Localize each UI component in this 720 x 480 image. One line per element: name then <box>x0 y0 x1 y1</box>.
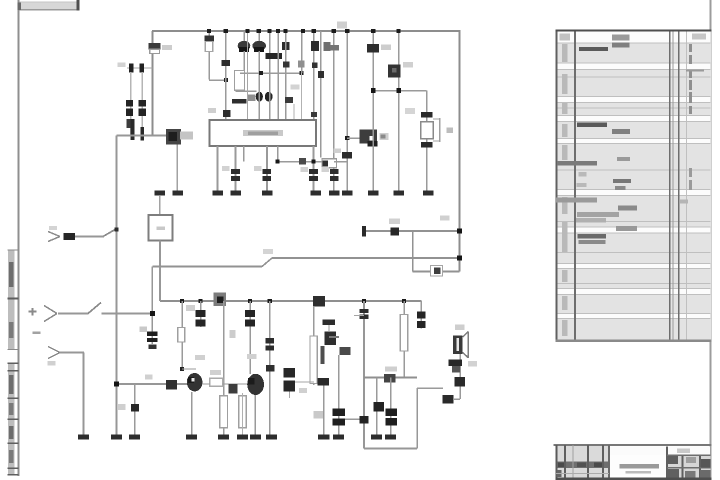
connector XS2 plus sign <box>29 311 37 313</box>
ground x242 <box>237 435 248 440</box>
wire right rail 90 <box>373 90 426 92</box>
capacitor C14 pair <box>263 169 272 174</box>
wire VD1 bottom <box>243 51 245 71</box>
capacitor C24 <box>131 404 139 412</box>
wire base link <box>347 137 360 139</box>
node x320 y382 <box>318 378 330 386</box>
transistor VT3 <box>360 130 378 144</box>
wire mid rail <box>240 72 302 74</box>
wire plus input <box>58 313 89 315</box>
wire drop x398 <box>398 31 400 191</box>
wire pin x301 lower <box>301 73 302 120</box>
wire C25 drop <box>289 391 290 398</box>
table rotated text right column lower <box>689 168 692 177</box>
label C23 <box>314 411 324 419</box>
resistor R12 body <box>239 396 247 428</box>
table left column position designator texts <box>562 44 568 62</box>
wire drop pin3 <box>258 92 260 120</box>
wire main left vertical <box>116 136 118 435</box>
variable resistor RP1 body <box>166 129 181 144</box>
ground x376 <box>371 435 382 440</box>
label feedback right <box>440 216 450 221</box>
wire fuse to switch <box>75 236 104 238</box>
capacitor C18 bars <box>245 310 255 317</box>
ground x373 <box>368 191 379 196</box>
wire IC pin f <box>313 146 315 191</box>
loudspeaker BA1 horn <box>463 332 469 337</box>
node y398 blob <box>443 395 454 404</box>
resistor R6 <box>431 266 443 277</box>
wire drop pin2 <box>247 31 248 120</box>
blob under-IC mid <box>299 158 306 164</box>
wire minus drop <box>83 353 85 435</box>
sheet left border frame line <box>18 0 20 476</box>
wire VT7 emitter <box>255 395 257 435</box>
wire drop x313 lower <box>313 306 315 385</box>
label C1 <box>118 63 126 68</box>
parts list table row lines <box>556 42 711 43</box>
wire drop R2 <box>208 31 210 80</box>
node mid y384 <box>229 384 238 394</box>
table entry row 6 <box>577 212 619 217</box>
wire link x345 to x364 <box>345 419 364 421</box>
parts list table bottom edge <box>556 340 712 342</box>
ground VT7 <box>250 435 261 440</box>
wire IC pin b <box>235 146 237 191</box>
op-amp IC DA1 box <box>210 120 317 146</box>
wire left mid vertical drop <box>152 267 154 345</box>
wire VT6 emitter <box>191 392 193 435</box>
table entry row 7 <box>576 218 606 222</box>
label VT9 <box>468 361 477 367</box>
wire drop x338 low <box>338 355 340 435</box>
wire VD2 top <box>258 31 260 41</box>
transistor VT4 <box>388 65 401 78</box>
wire RP1 to ground <box>176 145 178 191</box>
table small mark row mid <box>579 172 587 177</box>
capacitor C12 <box>342 152 352 159</box>
bar under cluster <box>232 99 247 104</box>
capacitor C6 <box>222 60 231 66</box>
crystal ZQ1 body <box>421 122 434 139</box>
wire under-IC rail <box>278 161 323 163</box>
parts list table body <box>556 31 711 342</box>
transistor VT2 <box>265 92 273 102</box>
label XS1 <box>49 226 57 230</box>
ground pin b <box>230 191 241 196</box>
label bottom mid b <box>247 354 257 359</box>
label above bus <box>337 22 347 29</box>
transistor VT1 <box>256 92 263 102</box>
electrolytic C23 bars <box>332 409 345 416</box>
title block right section fill <box>667 455 711 480</box>
wire drop x134 <box>134 384 136 435</box>
wire drop x285 <box>285 31 287 120</box>
capacitor C21 bars <box>417 312 426 319</box>
table rotated text right column upper <box>689 44 692 52</box>
wire drop x250 <box>250 301 252 374</box>
ground crystal <box>423 191 434 196</box>
left margin stamp column upper <box>8 250 15 350</box>
node switch top <box>115 228 119 232</box>
blob IC top left <box>223 110 230 117</box>
junction blob dark <box>313 296 325 307</box>
wire loop left <box>412 231 414 272</box>
blob pin1 top <box>223 110 231 117</box>
wire IC pin e <box>277 146 279 162</box>
node lower bus e <box>362 299 366 303</box>
wire drop x182 <box>181 301 183 370</box>
ground x390 <box>385 435 396 440</box>
top-left additional title cell <box>20 2 78 9</box>
label feedback node <box>389 219 400 225</box>
transistor VT6 <box>187 373 203 391</box>
wire drop x324 <box>323 386 325 435</box>
diode VD4 <box>311 41 319 51</box>
ground x334 <box>329 191 340 196</box>
label ZQ1 right <box>447 128 454 134</box>
wire R2 elbow <box>209 79 226 81</box>
ground main left <box>111 435 122 440</box>
wire ground to unit box <box>159 196 161 215</box>
fuse FU1 <box>64 233 76 240</box>
capacitor C8 <box>283 62 289 68</box>
capacitor C11 grey <box>330 45 339 51</box>
blob x313 lower <box>312 63 318 68</box>
ground x134 <box>129 435 140 440</box>
wire drop x320 <box>320 31 322 158</box>
resistor R9 body <box>310 336 317 384</box>
title block right cells lower <box>667 469 679 479</box>
wire pin x294 <box>293 104 294 120</box>
label x231 y333 <box>230 330 236 338</box>
crystal ZQ1 bracket <box>439 118 440 142</box>
transistor VT5 body <box>324 331 336 345</box>
wire drop x347 <box>346 31 348 191</box>
capacitor C5 plate short <box>140 127 144 141</box>
diode VD6 <box>454 377 465 387</box>
wire decoupling drop right <box>142 72 143 136</box>
wire drop x373 <box>372 31 374 191</box>
label inside U1 <box>157 227 166 231</box>
node plus rail <box>150 311 155 316</box>
wire speaker drop <box>459 340 461 399</box>
wire unit box down <box>159 241 161 302</box>
wire x289 to x313 <box>295 381 314 382</box>
ground node box link <box>155 191 166 196</box>
connector XS3 arrow <box>48 347 60 353</box>
resistor R8 body <box>400 315 407 352</box>
wire IC pin a <box>217 146 219 191</box>
switch SA2 lever <box>88 303 101 314</box>
title block left section fill <box>556 446 610 479</box>
capacitor C15 pair <box>309 169 318 174</box>
wire lower right rail y377 <box>364 377 417 379</box>
blob x269 y368 <box>266 365 275 372</box>
IC DA1 type text <box>243 130 283 136</box>
wire R10 to VT7 <box>223 383 248 384</box>
title block right verticals <box>666 447 668 480</box>
table entry row 5 <box>556 198 597 203</box>
node under-IC b <box>311 159 315 163</box>
node bus x398 <box>397 29 401 33</box>
label C13 <box>222 166 230 171</box>
wire R5 link <box>334 161 347 163</box>
ground minus rail <box>78 435 89 440</box>
wire drop x301 <box>301 31 303 73</box>
capacitor C17 bars <box>196 310 206 317</box>
wire drop x200 <box>200 301 202 327</box>
blob x326 <box>323 42 330 51</box>
transistor VT8 <box>373 402 384 412</box>
wire upper supply bus <box>152 30 460 32</box>
table entry row 4 <box>613 179 631 183</box>
wire mid horizontal to jog <box>152 266 262 268</box>
wire drop x269 <box>269 31 271 120</box>
electrolytic C22 on left rail <box>147 331 158 336</box>
label under bus <box>186 305 195 311</box>
top-left cell frame joint <box>17 3 21 10</box>
resistor R7 body <box>178 328 185 343</box>
node lower bus d <box>268 299 272 303</box>
transistor VT7 <box>247 374 264 395</box>
capacitor C1 <box>127 67 152 68</box>
wire drop x333 <box>333 31 335 191</box>
wire U right <box>416 388 418 449</box>
transistor VT5 bar <box>322 319 335 325</box>
wire decoupling drop left <box>130 72 131 136</box>
ground RP1 <box>172 191 183 196</box>
wire input node horizontal <box>117 135 167 137</box>
node x398 rail <box>396 88 401 93</box>
wire jog diagonal <box>262 258 272 267</box>
table group heading row 2 <box>577 122 607 127</box>
wire x417 elbow <box>417 387 443 389</box>
label R1 value <box>162 45 172 50</box>
label DA1 <box>180 132 193 140</box>
wire drop x242 <box>242 393 243 435</box>
title block left verticals <box>556 445 558 479</box>
label x293 <box>291 85 300 90</box>
wire drop x404 <box>403 301 405 378</box>
node lower bus f <box>402 299 406 303</box>
ground x338 <box>333 435 344 440</box>
ground pin a <box>212 191 223 196</box>
label C16 <box>322 167 330 172</box>
left margin stamp column lower <box>8 363 15 475</box>
wire VD1 top <box>243 31 245 41</box>
label bottom mid a <box>195 355 205 360</box>
capacitor C10 <box>318 71 324 78</box>
sheet right border frame line <box>710 0 712 480</box>
title block document designation box <box>610 455 667 475</box>
ground x223 <box>218 435 229 440</box>
resistor R2 <box>204 36 214 42</box>
label RP1 <box>183 132 193 137</box>
capacitor C3 plates <box>126 109 133 116</box>
label near jog <box>263 249 273 254</box>
wire drop x376 <box>376 378 378 435</box>
ground pin f <box>310 191 321 196</box>
label x300 y390 <box>299 388 307 393</box>
dark lead x322 <box>321 346 325 364</box>
resistor R3 body <box>235 71 245 91</box>
blob near IC corner <box>311 112 317 117</box>
capacitor C4 <box>127 119 135 128</box>
wire VT5 to x338 <box>329 336 339 338</box>
wire bus corner up <box>159 267 161 302</box>
parts list table top edge <box>556 30 712 32</box>
node R2 elbow <box>224 78 228 82</box>
wire feedback top <box>364 230 460 232</box>
wire drop x278 <box>277 31 279 120</box>
wire drop x313 <box>313 31 315 120</box>
ground x324 <box>318 435 329 440</box>
node mid rail a <box>259 71 263 75</box>
node loop right top <box>457 229 462 234</box>
title block top right small marks <box>677 449 690 454</box>
wire minus input <box>60 352 84 354</box>
title block upper white row <box>610 446 710 454</box>
table header label right column <box>692 34 706 40</box>
table header label Naimenovanie <box>612 35 630 41</box>
wire VD2 bottom <box>258 51 260 92</box>
capacitor C20 bars <box>360 309 369 313</box>
wire VT5 link <box>328 325 329 332</box>
label BA1 <box>455 325 465 331</box>
switch SA1 lever <box>104 228 118 236</box>
title block left lower mark <box>557 470 562 477</box>
connector XS1 arrow <box>48 232 60 237</box>
node lower bus c <box>248 299 252 303</box>
electrolytic C26 bars <box>385 408 397 416</box>
node bus x373 <box>371 29 375 33</box>
resistor R10 <box>210 378 223 386</box>
node x182 collector <box>180 367 184 371</box>
title block right horizontals <box>667 455 711 456</box>
label VT3 <box>380 133 389 140</box>
label XS3 <box>48 361 56 366</box>
capacitor C19 bars <box>265 338 274 343</box>
wire x182 to VT6 <box>182 368 196 369</box>
node loop mid <box>457 256 462 261</box>
crystal ZQ1 bottom plate <box>421 142 432 148</box>
label ZQ1 <box>405 108 415 114</box>
blob VT5 emitter <box>339 347 350 355</box>
capacitor C13 pair <box>231 169 240 174</box>
terminal under C22 <box>148 344 156 349</box>
transistor VT9 body <box>452 366 460 372</box>
wire IC pin c <box>243 146 245 162</box>
diode VD2 <box>252 41 266 51</box>
resistor R5 <box>322 159 337 168</box>
label near pin1 <box>208 108 216 113</box>
label C14 <box>254 166 262 171</box>
node mid rail b <box>300 71 304 75</box>
wire y399 link <box>453 398 460 400</box>
node x373 rail <box>371 88 376 93</box>
label R10 <box>210 370 221 375</box>
title block right cells upper <box>668 456 679 464</box>
wire loop bottom <box>413 271 460 273</box>
diode VD5 <box>166 380 177 390</box>
wire lower rail y384 <box>117 383 188 385</box>
parts list table column lines <box>556 31 558 342</box>
label C22 <box>140 327 148 333</box>
wire mid horizontal right <box>272 257 460 259</box>
resistor R1 <box>148 43 160 49</box>
wire drop x223 <box>223 301 225 435</box>
label C24 <box>118 404 126 410</box>
title block top edge <box>554 444 712 446</box>
capacitor C25 bars <box>284 368 296 378</box>
terminal bar left <box>362 226 366 237</box>
resistor R11 body <box>220 396 228 428</box>
wire R10 link <box>202 383 210 384</box>
cluster shade <box>247 95 256 102</box>
wire drop x390 <box>390 378 392 435</box>
ground x347 <box>342 191 353 196</box>
label C12 <box>334 149 342 154</box>
node under-IC a <box>275 159 279 163</box>
ground x398 <box>393 191 404 196</box>
table group heading row 8 <box>578 234 607 239</box>
table group heading row 1 <box>579 47 608 51</box>
capacitor C2 plates <box>126 100 133 107</box>
label R4 <box>381 45 391 51</box>
wire drop x270 <box>269 301 271 435</box>
wire lower main bus <box>160 300 421 302</box>
transistor VT9 bar <box>448 360 462 367</box>
wire stub y315 <box>354 315 364 316</box>
wire bus left drop <box>152 31 154 136</box>
table value cell row 1 <box>612 43 630 48</box>
node lower bus b <box>198 299 202 303</box>
label C15 <box>301 167 309 172</box>
node lower bus a <box>180 299 184 303</box>
capacitor C16 pair <box>330 169 339 174</box>
top-left cell end bar <box>76 0 79 10</box>
capacitor C5 plate tall <box>131 119 135 140</box>
node y384 left <box>114 382 119 387</box>
title block bottom edge <box>556 478 712 480</box>
junction label blob <box>214 293 227 307</box>
capacitor C9 light <box>298 61 305 68</box>
title block left dark row band <box>556 462 610 468</box>
diode VD3 <box>282 42 289 50</box>
node x364 low <box>359 416 368 424</box>
diode VD1 <box>238 41 251 51</box>
ground VT6 <box>186 435 197 440</box>
wire cluster rail <box>236 90 257 92</box>
wire plus to node <box>102 313 154 315</box>
blob x288 <box>285 97 293 103</box>
table entry row 3 <box>557 161 597 166</box>
connector XS2 arrow <box>44 306 57 314</box>
label VT4 <box>403 62 413 68</box>
connector XS3 minus dash <box>33 332 41 335</box>
loudspeaker BA1 body <box>453 336 463 354</box>
crystal ZQ1 top plate <box>421 112 432 118</box>
wire IC pin d <box>266 146 268 191</box>
table right column dash <box>686 69 704 71</box>
wire bus right drop <box>459 31 461 272</box>
node base wire <box>345 136 349 140</box>
title block left lower row line <box>556 473 609 474</box>
unit box U1 <box>149 215 173 241</box>
ground x270 <box>266 435 277 440</box>
table value cell row 2 <box>612 129 630 134</box>
